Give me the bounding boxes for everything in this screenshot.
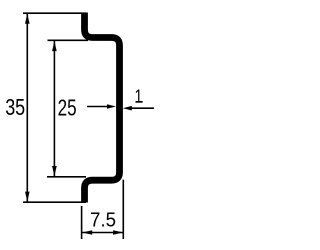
extension line top (25) [48, 39, 89, 41]
extension line bottom (35) [23, 201, 86, 203]
arrow 35 up [25, 14, 30, 24]
rail profile (hat section) [85, 13, 120, 203]
dimension line 25 [53, 40, 55, 177]
arrow 25 up [52, 41, 57, 51]
extension line bottom (25) [47, 176, 86, 178]
dimension line 7.5 [82, 232, 123, 234]
leader right of web (1) [130, 107, 154, 109]
arrow 7.5 left [82, 230, 92, 235]
svg-text:1: 1 [135, 87, 143, 107]
extension line right (7.5) [122, 180, 124, 239]
svg-text:35: 35 [5, 94, 25, 120]
arrow 25 down [52, 166, 57, 176]
extension line top (35) [23, 12, 86, 14]
extension line left (7.5) [81, 206, 83, 239]
label 1 foot serif [136, 101, 143, 103]
svg-text:25: 25 [58, 94, 77, 120]
arrowhead left pointing right (1) [107, 104, 116, 109]
arrow 7.5 right [113, 230, 123, 235]
leader left of web (1) [87, 106, 109, 108]
arrow 35 down [25, 192, 30, 202]
svg-text:7.5: 7.5 [90, 209, 116, 231]
arrowhead right pointing left (1) [123, 106, 132, 111]
dimension line 35 [26, 13, 28, 202]
